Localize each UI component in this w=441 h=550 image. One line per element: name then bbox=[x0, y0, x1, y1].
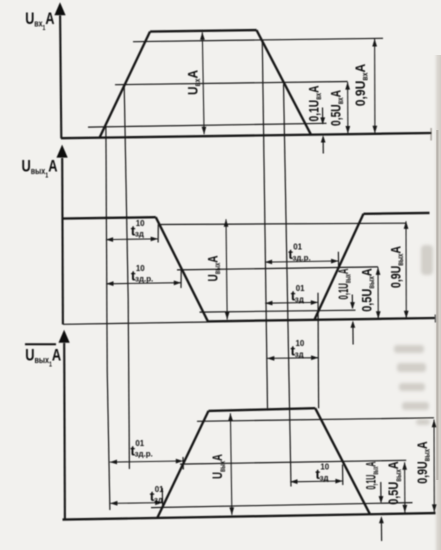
svg-text:0,9UвыхA: 0,9UвыхA bbox=[414, 441, 432, 484]
svg-text:01: 01 bbox=[155, 485, 164, 494]
svg-text:0,9UвыхA: 0,9UвыхA bbox=[388, 246, 406, 288]
svg-text:01: 01 bbox=[296, 284, 305, 293]
svg-text:0,9UвхA: 0,9UвхA bbox=[352, 64, 370, 107]
svg-text:0,5UвыхA: 0,5UвыхA bbox=[385, 461, 403, 505]
svg-text:зд: зд bbox=[295, 295, 304, 304]
svg-text:0,5UвхA: 0,5UвхA bbox=[328, 90, 346, 126]
svg-text:зд: зд bbox=[295, 350, 304, 359]
svg-text:зд.р.: зд.р. bbox=[293, 253, 311, 262]
svg-text:зд.р.: зд.р. bbox=[135, 450, 153, 459]
svg-text:01: 01 bbox=[293, 243, 302, 252]
svg-text:10: 10 bbox=[296, 339, 305, 348]
svg-text:зд: зд bbox=[320, 473, 329, 482]
svg-text:10: 10 bbox=[136, 219, 145, 228]
svg-text:10: 10 bbox=[320, 463, 329, 472]
svg-text:зд: зд bbox=[154, 496, 163, 505]
svg-text:01: 01 bbox=[135, 439, 144, 448]
svg-text:0,1UвыхA: 0,1UвыхA bbox=[363, 462, 381, 490]
svg-text:0,5UвыхA: 0,5UвыхA bbox=[359, 268, 377, 312]
svg-text:0,1UвхA: 0,1UвхA bbox=[306, 86, 324, 122]
svg-text:10: 10 bbox=[136, 264, 145, 273]
svg-text:0,1UвыхA: 0,1UвыхA bbox=[335, 269, 353, 300]
svg-text:зд: зд bbox=[135, 230, 144, 239]
svg-text:зд.р.: зд.р. bbox=[135, 275, 153, 284]
